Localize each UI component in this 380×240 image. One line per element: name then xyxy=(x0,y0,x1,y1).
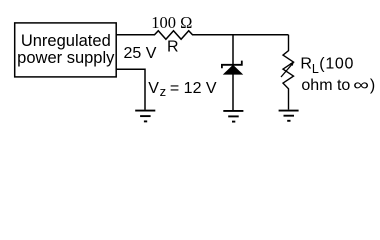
svg-text:Unregulated: Unregulated xyxy=(21,32,111,50)
svg-text:= 12 V: = 12 V xyxy=(170,80,217,97)
svg-text:R: R xyxy=(167,38,179,55)
svg-text:z: z xyxy=(160,84,167,99)
svg-text:100 Ω: 100 Ω xyxy=(151,13,192,32)
svg-text:∞: ∞ xyxy=(353,77,369,94)
svg-text:L: L xyxy=(312,62,319,76)
svg-text:V: V xyxy=(148,80,159,97)
svg-text:25 V: 25 V xyxy=(124,45,157,62)
svg-text:ohm to: ohm to xyxy=(301,77,350,94)
svg-text:R: R xyxy=(300,56,312,73)
svg-text:power supply: power supply xyxy=(17,49,115,67)
svg-text:): ) xyxy=(370,77,375,94)
svg-text:(100: (100 xyxy=(319,56,354,73)
